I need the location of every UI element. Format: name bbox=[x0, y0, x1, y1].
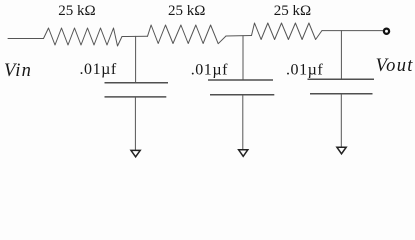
wire C2 to ground arrow bbox=[242, 95, 244, 150]
wire input lead bbox=[8, 38, 44, 40]
capacitor C1 bbox=[105, 83, 169, 97]
svg-text:25 kΩ: 25 kΩ bbox=[168, 3, 205, 19]
capacitor C3 bbox=[308, 79, 375, 94]
resistor R3 bbox=[252, 23, 323, 40]
ground arrow 2 bbox=[239, 150, 248, 157]
svg-text:.01µf: .01µf bbox=[286, 62, 323, 79]
output terminal circle bbox=[384, 29, 389, 34]
wire C3 to ground arrow bbox=[340, 94, 342, 147]
svg-text:25 kΩ: 25 kΩ bbox=[58, 3, 95, 19]
capacitor C2 bbox=[208, 80, 274, 95]
wire R2 to R3 bbox=[226, 35, 252, 38]
resistor R1 bbox=[44, 28, 123, 46]
wire R1 to R2 bbox=[122, 35, 148, 37]
wire R3 to output terminal bbox=[322, 30, 383, 32]
ground arrow 3 bbox=[337, 147, 346, 154]
wire node C vertical (cap C3 top lead) bbox=[340, 31, 342, 80]
resistor R2 bbox=[148, 25, 227, 44]
svg-text:Vin: Vin bbox=[4, 61, 32, 81]
svg-text:.01µf: .01µf bbox=[80, 61, 117, 78]
ground arrow 1 bbox=[131, 150, 140, 156]
wire node B vertical (cap C2 top lead) bbox=[242, 36, 244, 80]
wire C1 to ground arrow bbox=[134, 97, 136, 150]
svg-text:25 kΩ: 25 kΩ bbox=[274, 3, 311, 19]
wire node A vertical (cap C1 top lead) bbox=[135, 36, 137, 82]
svg-text:Vout: Vout bbox=[376, 56, 414, 76]
svg-text:.01µf: .01µf bbox=[191, 61, 228, 78]
